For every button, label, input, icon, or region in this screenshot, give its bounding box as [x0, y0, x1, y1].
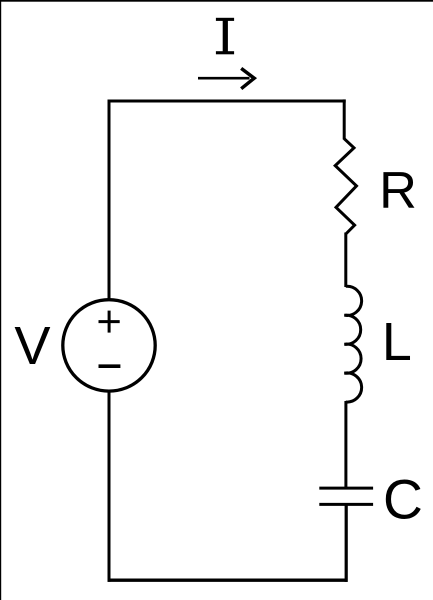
svg-text:V: V — [14, 316, 50, 376]
wire: right vertical top — [343, 99, 346, 139]
wire: top horizontal — [108, 100, 346, 103]
voltage source V circle — [63, 300, 155, 391]
wire: right vertical bottom — [345, 504, 348, 582]
wire: right vertical between L and C — [344, 401, 347, 488]
capacitor C bottom plate — [319, 503, 373, 506]
current arrow — [198, 68, 254, 88]
wire: left vertical upper — [108, 100, 111, 301]
plus sign — [99, 311, 120, 333]
capacitor C top plate — [319, 487, 373, 490]
inductor L coils — [344, 286, 361, 402]
top edge black line — [0, 0, 433, 2]
wire: left vertical lower — [108, 391, 111, 582]
svg-text:C: C — [383, 469, 423, 531]
wire: bottom horizontal — [108, 579, 348, 582]
wire: right vertical between R and L — [344, 233, 347, 288]
svg-text:R: R — [379, 162, 417, 220]
left edge black line — [0, 0, 1, 600]
minus sign — [99, 364, 121, 368]
label I (current) — [216, 18, 234, 55]
resistor R zigzag — [335, 139, 356, 234]
svg-text:L: L — [382, 312, 412, 372]
